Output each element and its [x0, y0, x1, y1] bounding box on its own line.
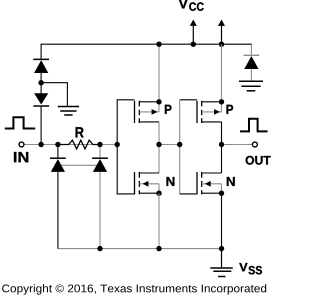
wire: top VCC rail: [41, 43, 252, 45]
ground: top-right ground: [239, 81, 263, 91]
node dot: inverter 1 output: [156, 142, 161, 147]
node dot: rail at Q2: [156, 246, 161, 251]
drain stub bottom: [139, 121, 159, 123]
label VSS (net VSS): [239, 263, 247, 271]
pulse waveform OUT: [240, 119, 268, 132]
label N: [227, 177, 235, 186]
gate bracket inverter 2: bottom gate wire: [180, 193, 197, 195]
gate bar: [134, 101, 136, 123]
wire: VSS stem: [221, 249, 223, 268]
wire: clamp node to internal ground: [41, 83, 67, 106]
node dot: interstage at bracket 2: [177, 142, 182, 147]
wire: drain column inverter 1 (gray): [158, 122, 160, 173]
channel bar (3 segments): [201, 172, 203, 194]
wire: anode connector between ESD diodes (gray): [58, 164, 100, 166]
gate bracket inverter 1: [117, 100, 134, 194]
channel bar (3 segments): [138, 172, 140, 194]
diode D4 (input ESD): [50, 158, 66, 172]
bulk arrow: [205, 181, 211, 187]
terminal circle IN: [19, 142, 24, 147]
node dot: input at bracket 1: [115, 142, 120, 147]
label P: [227, 105, 234, 114]
source stub top: [202, 101, 222, 103]
wire: interstage node line (gray): [159, 144, 180, 146]
channel bar (3 segments): [201, 101, 203, 123]
bulk arrow: [214, 109, 220, 115]
source stub bottom: [202, 192, 222, 194]
node dot: input line at R left: [55, 142, 60, 147]
label VCC (net VCC): [179, 0, 188, 8]
bulk stub (gray): [202, 102, 222, 112]
gate bar: [196, 101, 198, 123]
drain stub bottom: [202, 121, 222, 123]
drain stub top: [202, 172, 222, 174]
diode D5 (input ESD): [92, 158, 108, 172]
wire: drain column inverter 2: [221, 122, 223, 173]
label P: [165, 105, 172, 114]
wire: VCC feed to Q3 (gray): [221, 44, 223, 102]
transistor Q4 NMOS: [197, 172, 235, 194]
diode D5 ESD right: stems (gray): [99, 145, 101, 249]
caption: copyright: [2, 284, 266, 294]
ground: internal ground left: [58, 107, 79, 116]
terminal circle OUT: [252, 142, 257, 147]
wire: left vertical from top rail through diode chain to input node: [40, 44, 42, 145]
VCC arrow 1: [190, 20, 197, 45]
wire: VCC feed to Q1 (gray): [158, 44, 160, 102]
ground: VSS ground: [210, 268, 233, 277]
wire: Q4 source to bottom rail: [221, 193, 223, 248]
node dot: inverter 2 output: [219, 142, 224, 147]
node dot: Q1 source: [156, 99, 161, 104]
source stub top: [139, 101, 159, 103]
label R: [76, 127, 84, 137]
label N: [167, 177, 175, 186]
node dot: rail at Q1 feed: [156, 42, 161, 47]
node dot: Q3 source: [219, 99, 224, 104]
bulk stub (gray): [139, 102, 159, 112]
node dot: input node at left chain: [38, 142, 43, 147]
diode D2 (input clamp, cathode down): [33, 93, 49, 106]
diode D1 (VCC clamp, anode up): [33, 59, 49, 73]
wire: rail to top-right diode (gray): [250, 44, 252, 54]
transistor Q1 PMOS: [135, 101, 172, 123]
pulse waveform IN: [5, 117, 35, 128]
bulk arrow: [152, 109, 158, 115]
gate bar: [134, 172, 136, 194]
drain stub top: [139, 172, 159, 174]
wire: input line (gray): [24, 144, 117, 146]
bulk arrow: [143, 181, 149, 187]
wire: diode D3 to ground (gray): [250, 69, 252, 81]
node dot: rail at ESD right: [97, 246, 102, 251]
label IN: [14, 152, 28, 162]
gate bar: [196, 172, 198, 194]
channel bar (3 segments): [138, 101, 140, 123]
node dot: Q4 source: [219, 191, 224, 196]
node dot: rail at Q3 feed / arrow 2: [219, 42, 224, 47]
node dot: clamp junction: [38, 80, 43, 85]
gate bracket inverter 2: vertical (gray): [179, 99, 181, 194]
node dot: Q2 source: [156, 191, 161, 196]
wire: output line to OUT (gray): [222, 144, 253, 146]
VCC arrow 2: [218, 20, 225, 45]
diode D4 ESD left: stems: [57, 145, 59, 249]
transistor Q3 PMOS: [197, 101, 233, 123]
resistor R zigzag: [58, 140, 100, 149]
node dot: input line at ESD right: [97, 142, 102, 147]
gate bracket inverter 2: top gate wire: [180, 99, 197, 101]
node dot: rail at VSS: [219, 246, 224, 251]
bulk stub (gray): [139, 184, 159, 193]
node dot: rail arrow 1: [191, 42, 196, 47]
label OUT: [246, 156, 271, 165]
diode D3 (output ESD cell): [244, 55, 260, 69]
bulk stub (gray): [202, 184, 222, 193]
source stub bottom: [139, 192, 159, 194]
wire: Q2 source to bottom rail (gray): [158, 193, 160, 248]
transistor Q2 NMOS: [135, 172, 175, 194]
wire: bottom VSS rail (gray): [58, 248, 222, 250]
